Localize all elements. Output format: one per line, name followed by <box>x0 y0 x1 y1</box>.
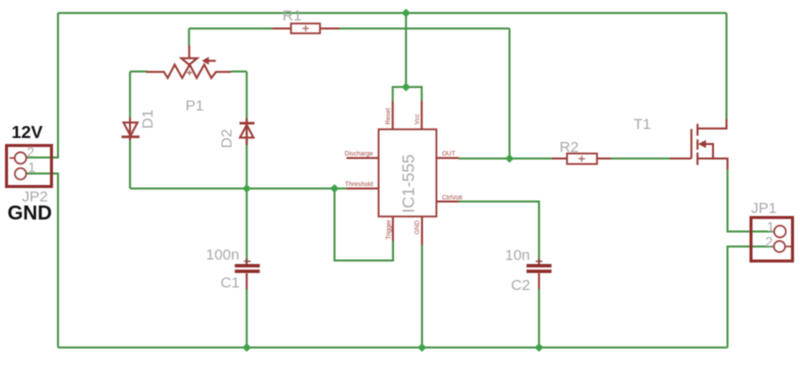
svg-text:T1: T1 <box>634 116 652 133</box>
svg-text:Reset: Reset <box>385 108 392 125</box>
svg-text:JP1: JP1 <box>751 200 777 217</box>
svg-text:10n: 10n <box>505 247 530 264</box>
svg-text:Vcc: Vcc <box>414 114 421 125</box>
svg-text:Trigger: Trigger <box>385 220 392 240</box>
svg-text:Discharge: Discharge <box>345 150 374 157</box>
svg-text:GND: GND <box>8 203 52 225</box>
svg-text:1: 1 <box>767 220 775 235</box>
svg-text:R1: R1 <box>283 8 302 25</box>
svg-text:IC1-555: IC1-555 <box>400 154 418 213</box>
svg-text:Threshold: Threshold <box>345 181 373 188</box>
svg-text:100n: 100n <box>206 247 239 264</box>
svg-text:C1: C1 <box>221 274 240 291</box>
svg-text:P1: P1 <box>186 98 204 115</box>
svg-text:R2: R2 <box>560 139 579 156</box>
svg-text:C2: C2 <box>511 277 530 294</box>
svg-text:12V: 12V <box>12 122 43 142</box>
svg-text:D1: D1 <box>140 110 157 129</box>
svg-text:D2: D2 <box>219 129 236 148</box>
svg-text:2: 2 <box>27 145 35 160</box>
svg-text:CtrlVolt: CtrlVolt <box>442 195 463 202</box>
svg-text:1: 1 <box>28 160 36 175</box>
svg-text:OUT: OUT <box>442 150 455 157</box>
svg-text:2: 2 <box>765 235 773 250</box>
svg-text:GND: GND <box>414 220 421 234</box>
